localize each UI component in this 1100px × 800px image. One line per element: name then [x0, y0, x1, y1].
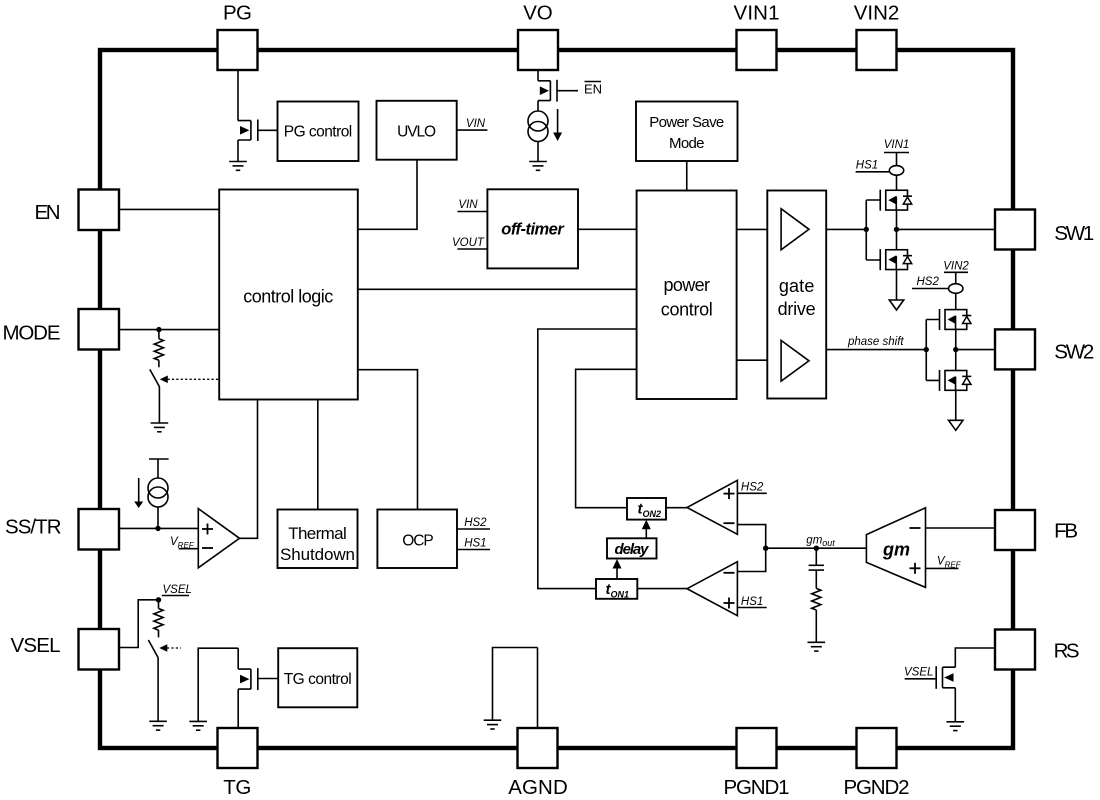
wire U-gm minus to FB pin	[926, 527, 996, 529]
svg-text:HS1: HS1	[741, 596, 763, 608]
wire SW-VSEL to ground	[157, 658, 159, 721]
wire UVLO to control logic	[358, 160, 417, 230]
svg-text:VIN2: VIN2	[854, 2, 900, 25]
svg-text:PGND2: PGND2	[844, 776, 910, 799]
comparator U-HS1 (lower on-time comparator)	[687, 562, 737, 616]
wire HS1 input (U-HS1 plus)	[737, 607, 766, 609]
wire TG left leg to ground	[198, 648, 238, 721]
pin SS/TR	[5, 509, 119, 550]
wire HS1 to sense oval	[856, 171, 890, 173]
svg-text:Thermal: Thermal	[288, 524, 347, 543]
pin RS	[995, 630, 1080, 670]
svg-text:PG: PG	[223, 2, 252, 25]
wire oval to Q-HS1 drain	[896, 175, 898, 190]
arrow current direction VO	[553, 109, 562, 141]
node SW2	[953, 347, 958, 352]
arrow current direction SS	[134, 478, 143, 508]
label VIN2 (supply)	[943, 261, 969, 273]
IC boundary box	[100, 50, 1013, 748]
wire TG top to Q-TG	[237, 648, 239, 669]
svg-text:SW1: SW1	[1054, 222, 1094, 245]
minus sign U-gm	[910, 527, 921, 529]
pin VSEL	[11, 629, 120, 670]
box tON1	[596, 579, 637, 600]
transistor Q-LS2 (rectifier FET 2)	[940, 370, 972, 391]
plus sign U-gm	[910, 563, 921, 574]
wire control logic to Thermal Shutdown	[317, 400, 319, 510]
wire Q-TG gate to TG control	[258, 678, 278, 680]
svg-text:HS2: HS2	[741, 482, 764, 494]
dashed control arrow to SW-VSEL	[159, 644, 181, 652]
wire Q-VO gate lead	[557, 90, 578, 92]
pin AGND	[508, 728, 568, 799]
svg-text:OCP: OCP	[402, 532, 434, 549]
arrow tON1 to delay	[613, 559, 622, 579]
svg-text:Mode: Mode	[669, 135, 705, 152]
label EN-bar	[584, 82, 602, 97]
node VSEL divider	[156, 597, 161, 602]
wire off-timer output to power control	[578, 228, 637, 230]
node MODE divider	[156, 327, 161, 332]
pin VO	[518, 2, 558, 71]
current source I-SS top bar	[149, 459, 169, 478]
svg-text:Shutdown: Shutdown	[280, 545, 355, 564]
node gm_out	[814, 546, 819, 551]
pin VIN1	[734, 2, 780, 71]
svg-text:gate: gate	[779, 276, 815, 296]
wire resistor to switch SW-VSEL	[158, 630, 160, 637]
svg-text:HS2: HS2	[464, 517, 487, 529]
ground below SW-MODE	[151, 423, 169, 432]
pin FB	[995, 510, 1078, 550]
svg-text:AGND: AGND	[508, 776, 568, 799]
ground AGND left leg	[484, 720, 502, 729]
label VIN1 (supply)	[884, 139, 910, 153]
wire gate drive upper output to gate bus	[826, 228, 866, 230]
transistor Q-HS2 (high-side FET 2)	[940, 309, 972, 330]
node SW1	[894, 227, 899, 232]
ground below Q-PG	[229, 162, 247, 171]
wire resistor to switch	[158, 360, 160, 367]
wire U-HS1 minus to junction	[737, 548, 765, 571]
wire power control to gate drive upper	[737, 228, 768, 230]
wire power control to gate drive lower	[737, 359, 768, 361]
svg-text:off-timer: off-timer	[501, 221, 565, 239]
pin VIN2	[854, 2, 900, 71]
wire capacitor to resistor	[815, 570, 817, 588]
wire MODE pin to control logic	[119, 329, 219, 331]
block Power Save Mode	[636, 102, 738, 162]
plus sign U-HS1	[724, 598, 735, 609]
svg-text:VSEL: VSEL	[904, 667, 933, 679]
ground below I-VO	[529, 162, 547, 171]
transistor Q-PG (PG pull-down FET)	[238, 120, 258, 142]
svg-text:VIN: VIN	[458, 199, 478, 211]
block UVLO	[377, 101, 457, 160]
wire VSEL to Q-RS gate	[905, 678, 937, 680]
ground TG left leg	[189, 721, 207, 730]
wire PG pin to Q-PG drain	[237, 70, 239, 121]
wire Q-PG source down	[237, 140, 239, 162]
svg-text:VSEL: VSEL	[11, 634, 61, 657]
minus sign U-HS1	[724, 572, 735, 574]
comparator U-SS (SS/TR comparator)	[198, 509, 239, 568]
wire resistor to ground	[815, 610, 817, 642]
wire t_ON1 net (power control to t_ON1)	[538, 329, 637, 589]
svg-text:control logic: control logic	[243, 287, 333, 307]
wire gate bus SW1	[866, 200, 880, 260]
svg-text:drive: drive	[778, 299, 816, 319]
wire SW2 node vertical	[955, 329, 957, 370]
box tON2	[627, 498, 666, 520]
block power control	[637, 191, 737, 400]
block OCP	[377, 510, 457, 569]
svg-text:PG control: PG control	[284, 124, 353, 141]
wire VIN1 bar to sense oval	[896, 153, 898, 166]
wire control logic to power control	[358, 288, 637, 290]
svg-text:TG: TG	[223, 776, 251, 799]
wire SW2 node to SW2 pin	[956, 349, 995, 351]
pin PG	[218, 2, 258, 71]
capacitor C-comp	[809, 565, 824, 570]
svg-text:Power Save: Power Save	[649, 114, 724, 131]
wire SW1 node to SW1 pin	[897, 228, 996, 230]
wire AGND left leg to ground	[493, 648, 538, 720]
wire junction to gm output node	[766, 547, 867, 549]
wire Q-PG gate to PG control	[258, 129, 278, 131]
plus sign U-HS2	[724, 488, 735, 499]
transistor Q-HS1 (high-side FET 1)	[880, 190, 912, 211]
minus sign U-HS2	[724, 522, 735, 524]
svg-text:phase shift: phase shift	[847, 336, 904, 348]
wire VREF input to U-SS	[179, 548, 199, 550]
wire VIN2 bar to sense oval	[955, 272, 957, 283]
ground triangle below SW2 stage	[949, 420, 963, 430]
wire node to capacitor	[815, 548, 817, 565]
pin MODE	[3, 309, 120, 350]
wire off-timer VOUT input	[457, 248, 487, 250]
wire EN pin to control logic	[119, 208, 219, 210]
svg-text:SS/TR: SS/TR	[5, 516, 62, 539]
pin PGND2	[844, 728, 910, 799]
resistor R-MODE	[154, 339, 163, 361]
wire Q-LS1 source down	[896, 270, 898, 300]
resistor R-comp	[812, 588, 821, 610]
block control logic	[219, 190, 358, 400]
block TG control	[278, 648, 357, 707]
wire OCP HS2 output	[457, 528, 490, 530]
wire gate bus SW2	[926, 320, 939, 381]
svg-text:power: power	[664, 275, 711, 295]
wire node to resistor	[158, 330, 160, 339]
transistor Q-RS	[936, 666, 955, 689]
wire SW1 node vertical	[896, 210, 898, 250]
wire gate drive lower output (phase shift)	[826, 349, 926, 351]
svg-text:MODE: MODE	[3, 322, 61, 345]
switch SW-MODE lever	[150, 369, 160, 387]
transistor Q-LS1 (rectifier FET 1)	[880, 249, 912, 270]
wire t_ON2 net (power control to t_ON2)	[576, 369, 637, 507]
wire oval to Q-HS2 drain	[955, 293, 957, 309]
pin TG	[218, 728, 258, 799]
ground below R-comp	[808, 642, 826, 651]
box delay	[607, 538, 657, 558]
pin SW1	[995, 210, 1094, 250]
svg-text:VIN1: VIN1	[734, 2, 780, 25]
wire node to resistor R-VSEL	[158, 600, 160, 609]
svg-text:delay: delay	[615, 541, 650, 558]
svg-text:PGND1: PGND1	[724, 776, 790, 799]
label VSEL (divider top)	[162, 584, 192, 596]
svg-text:VIN2: VIN2	[943, 261, 969, 273]
wire Power Save Mode to power control	[686, 161, 688, 191]
sense oval HS2	[949, 284, 963, 294]
wire I-SS to node	[157, 507, 159, 528]
wire Q-LS2 source down	[955, 390, 957, 420]
block PG control	[278, 102, 359, 162]
wire control logic to OCP	[358, 370, 418, 510]
arrow delay to tON2	[642, 520, 651, 539]
wire off-timer VIN input	[457, 211, 487, 213]
wire I-VO to ground	[537, 142, 539, 162]
pin PGND1	[724, 728, 790, 799]
wire U-HS2 output to tON2	[666, 507, 687, 509]
current source I-SS	[148, 478, 168, 507]
svg-text:VO: VO	[523, 2, 553, 25]
wire U-SS output to control logic	[240, 400, 258, 539]
svg-text:HS1: HS1	[464, 538, 486, 550]
wire Q-TG to TG pin	[237, 689, 239, 728]
svg-text:SW2: SW2	[1054, 341, 1094, 364]
node gate bus SW2	[924, 347, 929, 352]
minus sign U-SS	[202, 547, 213, 549]
block off-timer	[487, 189, 578, 268]
wire SS/TR pin to comparator	[119, 527, 198, 529]
svg-text:VIN: VIN	[466, 118, 486, 130]
svg-text:EN: EN	[35, 201, 61, 224]
wire Q-RS source to ground	[954, 688, 956, 722]
wire U-HS2 minus to junction	[737, 525, 765, 549]
wire UVLO VIN output	[457, 129, 488, 131]
ground below SW-VSEL	[149, 721, 167, 730]
comparator U-HS2 (upper on-time comparator)	[687, 480, 737, 534]
sense oval HS1	[889, 166, 903, 176]
wire VREF input to U-gm	[926, 567, 959, 569]
svg-text:UVLO: UVLO	[397, 124, 436, 141]
resistor R-VSEL	[154, 609, 163, 631]
svg-text:RS: RS	[1054, 640, 1080, 663]
wire OCP HS1 output	[457, 549, 490, 551]
transistor Q-TG	[238, 668, 258, 690]
transistor Q-VO (VO sense FET)	[538, 80, 557, 102]
pin EN	[35, 190, 120, 231]
wire switch to ground	[158, 387, 160, 423]
current source I-VO	[528, 111, 548, 142]
wire Q-VO to current source	[537, 101, 539, 111]
plus sign U-SS	[202, 524, 213, 535]
node SS/TR	[155, 526, 160, 531]
wire HS2 to sense oval	[912, 288, 949, 290]
op-amp U-gm (error amplifier)	[866, 508, 925, 588]
wire VSEL pin to node	[119, 600, 161, 648]
svg-text:TG control: TG control	[284, 671, 352, 688]
wire U-HS1 output to tON1	[637, 588, 687, 590]
svg-text:VSEL: VSEL	[163, 584, 192, 596]
wire VO pin down	[537, 70, 539, 81]
wire HS2 input (U-HS2 plus)	[737, 492, 766, 494]
svg-text:gm: gm	[882, 540, 910, 560]
wire AGND right leg to pin	[537, 648, 539, 729]
node comparator junction	[763, 546, 768, 551]
block gate drive	[767, 191, 826, 399]
buffer lower (gate drive)	[781, 340, 809, 381]
pin SW2	[995, 329, 1094, 369]
ground triangle below SW1 stage	[889, 300, 903, 310]
block Thermal Shutdown	[278, 510, 358, 569]
svg-text:FB: FB	[1054, 520, 1078, 543]
wire RS pin to Q-RS	[955, 648, 995, 667]
svg-text:HS2: HS2	[917, 276, 940, 288]
node gate bus SW1	[864, 227, 869, 232]
svg-text:VOUT: VOUT	[452, 237, 485, 249]
ground below Q-RS	[947, 722, 965, 731]
svg-text:HS1: HS1	[856, 159, 878, 171]
dashed control arrow to SW-MODE	[160, 376, 219, 384]
svg-text:VIN1: VIN1	[884, 139, 910, 151]
switch SW-VSEL lever	[148, 640, 158, 658]
buffer upper (gate drive)	[781, 209, 809, 250]
svg-text:EN: EN	[584, 82, 602, 97]
svg-text:control: control	[661, 299, 713, 319]
